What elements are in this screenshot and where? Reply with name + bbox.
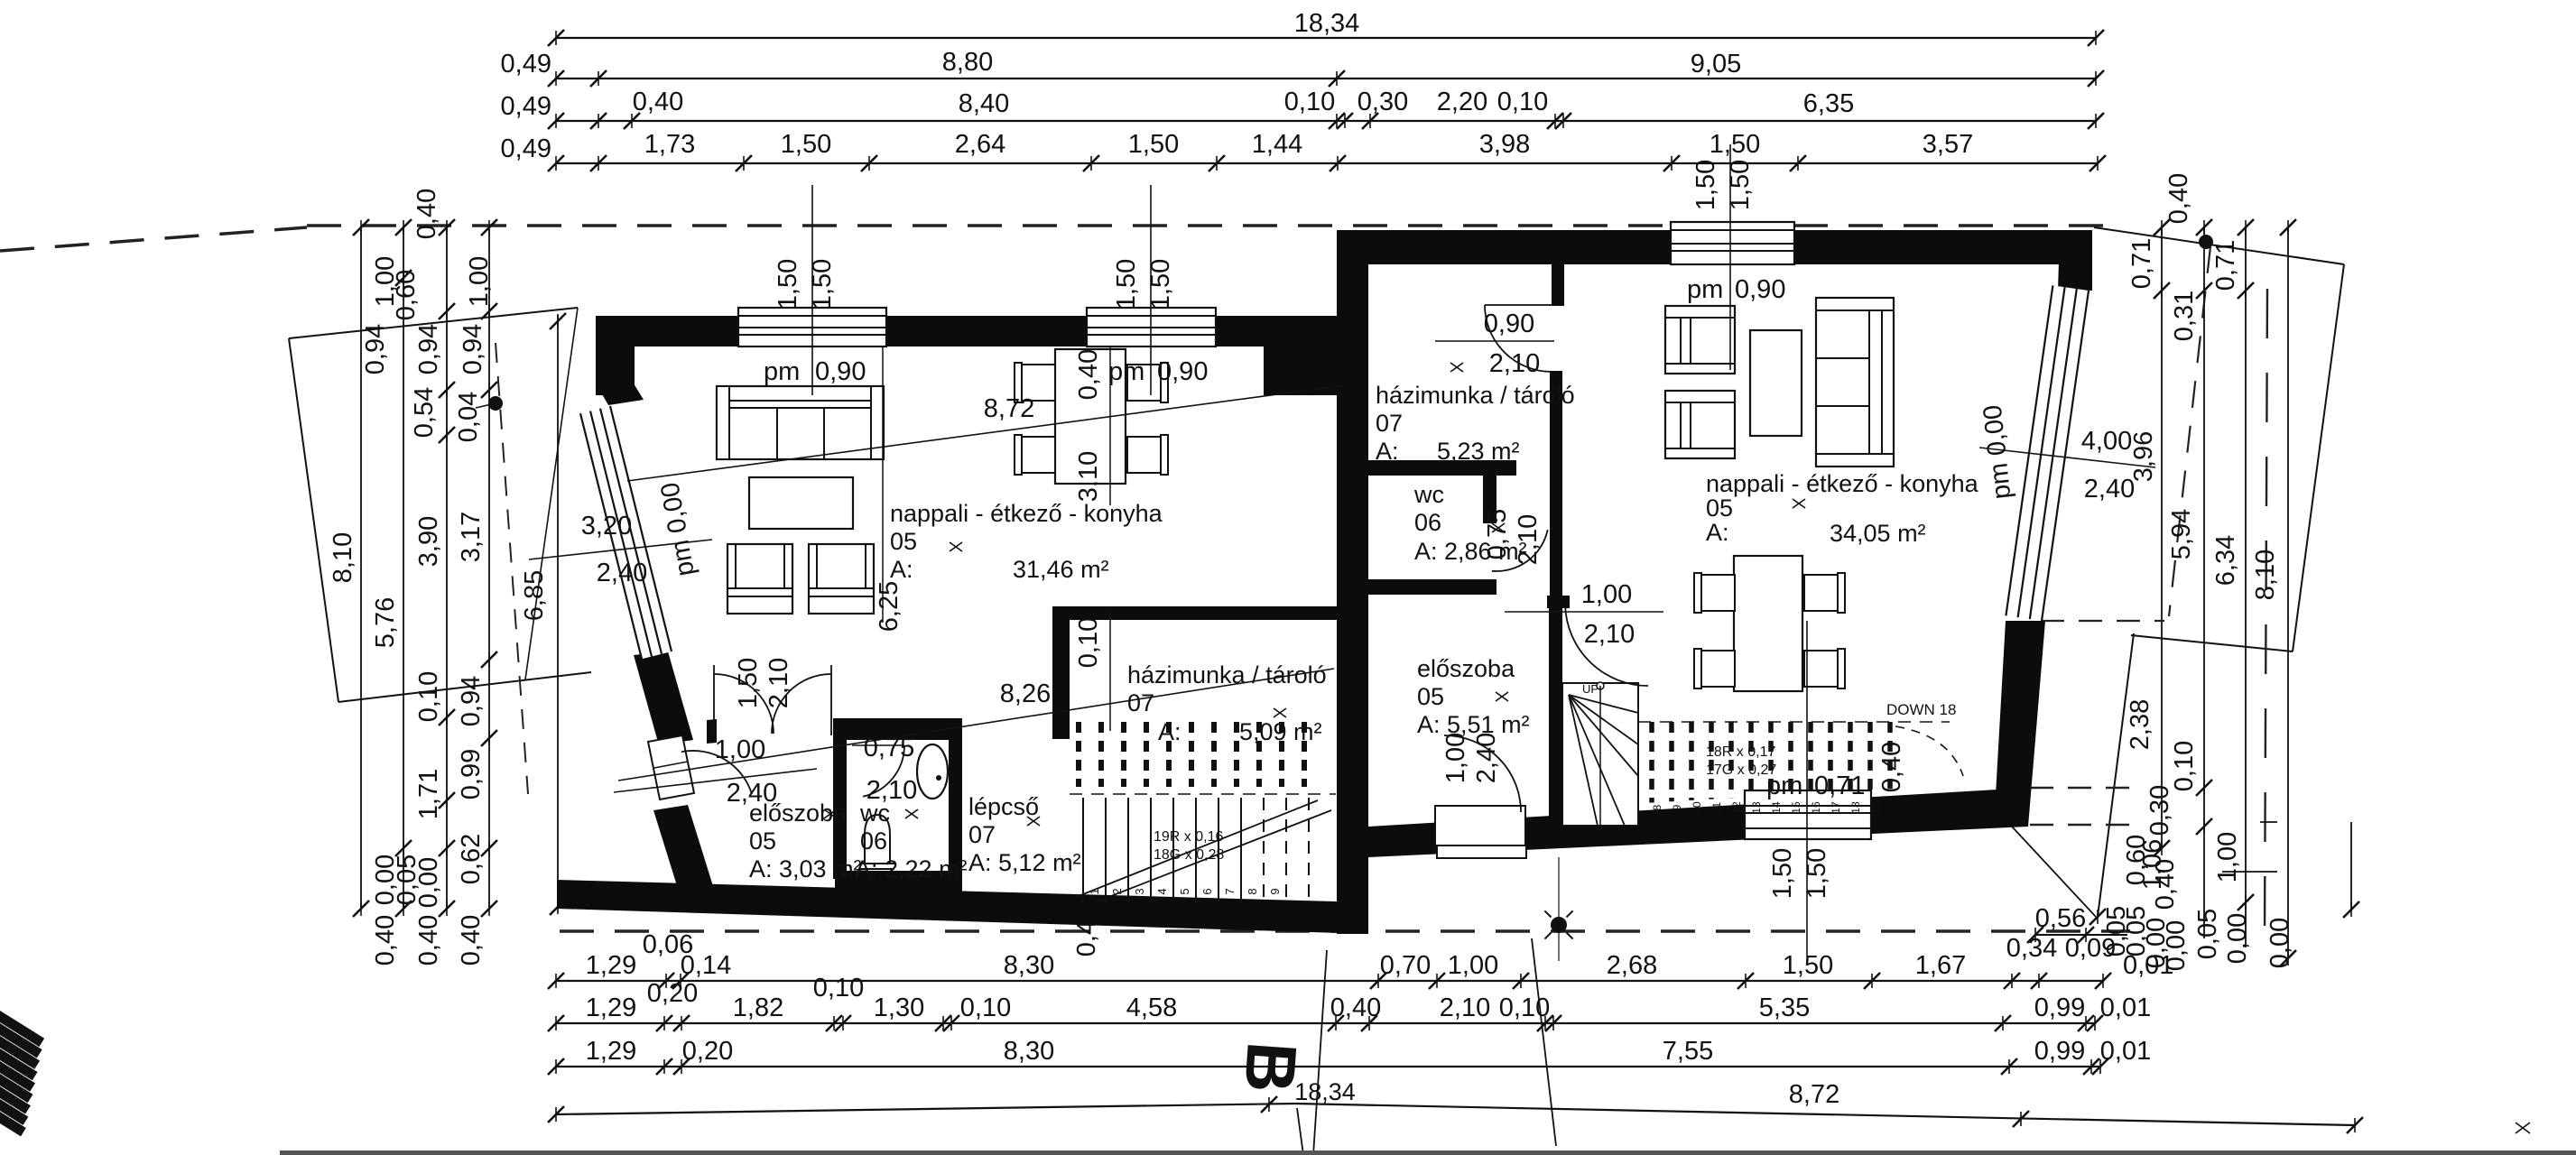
svg-text:0,99: 0,99 (2034, 1037, 2085, 1066)
svg-text:1,50: 1,50 (1710, 130, 1760, 159)
svg-text:19: 19 (1869, 801, 1882, 814)
svg-text:5,76: 5,76 (371, 597, 400, 648)
svg-text:6,34: 6,34 (2211, 535, 2240, 586)
svg-text:0,49: 0,49 (501, 50, 551, 79)
svg-text:2: 2 (1110, 888, 1124, 894)
svg-text:0,99: 0,99 (2034, 993, 2085, 1022)
svg-text:0,71: 0,71 (1814, 772, 1865, 800)
svg-text:8,40: 8,40 (959, 89, 1009, 118)
svg-text:2,38: 2,38 (2126, 699, 2154, 750)
svg-text:0,20: 0,20 (682, 1037, 733, 1066)
svg-text:9: 9 (1671, 804, 1683, 810)
svg-text:1,67: 1,67 (1915, 951, 1966, 980)
svg-text:5,09 m²: 5,09 m² (1239, 718, 1322, 745)
svg-text:1,50: 1,50 (808, 259, 837, 310)
svg-text:1,29: 1,29 (586, 951, 636, 980)
svg-text:1,50: 1,50 (781, 130, 831, 159)
svg-text:0,00: 0,00 (2266, 918, 2294, 968)
svg-text:07: 07 (1376, 410, 1403, 437)
svg-text:nappali - étkező - konyha: nappali - étkező - konyha (890, 500, 1163, 527)
svg-text:6,85: 6,85 (520, 570, 549, 621)
svg-text:pm: pm (1108, 357, 1144, 386)
svg-text:0,10: 0,10 (2170, 741, 2199, 791)
svg-text:0,40: 0,40 (633, 88, 683, 116)
svg-text:5,23 m²: 5,23 m² (1437, 438, 1520, 465)
svg-text:8,26: 8,26 (1000, 679, 1051, 708)
svg-text:0,40: 0,40 (1330, 993, 1381, 1022)
svg-text:1,50: 1,50 (1768, 848, 1797, 899)
svg-text:8,30: 8,30 (1004, 1037, 1054, 1066)
svg-text:2,10: 2,10 (1514, 514, 1543, 565)
svg-text:7: 7 (1223, 888, 1237, 894)
svg-text:UP: UP (1582, 682, 1598, 696)
svg-text:1,50: 1,50 (1802, 848, 1831, 899)
svg-text:9: 9 (1268, 888, 1282, 894)
svg-text:6: 6 (1200, 888, 1214, 894)
svg-text:1,29: 1,29 (586, 993, 636, 1022)
svg-text:07: 07 (1127, 689, 1154, 716)
svg-text:3,90: 3,90 (414, 516, 443, 567)
svg-text:1: 1 (1088, 888, 1101, 894)
svg-text:1,00: 1,00 (2213, 832, 2242, 882)
svg-text:0,10: 0,10 (1074, 617, 1103, 668)
svg-text:4: 4 (1155, 888, 1169, 894)
svg-text:1,30: 1,30 (874, 993, 924, 1022)
svg-text:0,30: 0,30 (2145, 785, 2174, 836)
svg-text:0,31: 0,31 (2170, 291, 2199, 341)
svg-text:2,40: 2,40 (2084, 475, 2135, 504)
svg-text:05: 05 (890, 528, 917, 555)
svg-text:8,80: 8,80 (942, 48, 993, 77)
svg-text:0,99: 0,99 (457, 749, 486, 799)
svg-text:15: 15 (1790, 801, 1802, 814)
svg-text:4,00: 4,00 (2081, 427, 2132, 456)
svg-text:A: 2,22 m²: A: 2,22 m² (855, 855, 968, 882)
svg-text:0,49: 0,49 (501, 92, 551, 121)
svg-text:0,60: 0,60 (392, 270, 421, 320)
svg-text:0,01: 0,01 (2100, 993, 2151, 1022)
svg-text:1,50: 1,50 (1146, 259, 1175, 310)
svg-text:8,30: 8,30 (1004, 951, 1054, 980)
svg-text:1,00: 1,00 (1581, 580, 1632, 609)
svg-text:12: 12 (1730, 801, 1743, 814)
svg-text:lépcső: lépcső (968, 793, 1039, 820)
svg-text:2,20: 2,20 (1437, 88, 1487, 116)
svg-text:1,44: 1,44 (1252, 130, 1302, 159)
svg-text:0,10: 0,10 (1284, 88, 1335, 116)
svg-text:2,10: 2,10 (866, 776, 917, 805)
svg-text:18: 18 (1849, 801, 1862, 814)
svg-text:05: 05 (749, 827, 776, 855)
svg-text:5,94: 5,94 (2167, 509, 2196, 559)
svg-text:11: 11 (1710, 801, 1723, 813)
svg-text:0,10: 0,10 (414, 671, 443, 722)
svg-text:0,40: 0,40 (371, 915, 400, 966)
svg-text:17: 17 (1830, 801, 1842, 814)
svg-text:2,10: 2,10 (764, 658, 793, 708)
svg-text:31,46 m²: 31,46 m² (1013, 556, 1109, 583)
svg-text:0,01: 0,01 (2123, 951, 2173, 980)
svg-text:0,94: 0,94 (414, 324, 443, 374)
svg-text:0,30: 0,30 (1357, 88, 1408, 116)
svg-text:házimunka / tároló: házimunka / tároló (1376, 382, 1575, 409)
svg-text:8: 8 (1651, 804, 1663, 810)
svg-text:A:: A: (1376, 438, 1399, 465)
svg-text:13: 13 (1750, 801, 1763, 814)
svg-text:0,01: 0,01 (2100, 1037, 2151, 1066)
svg-text:A: 3,03 m²: A: 3,03 m² (749, 855, 862, 882)
svg-text:5: 5 (1178, 888, 1191, 894)
svg-text:pm: pm (764, 357, 800, 386)
svg-text:A:: A: (890, 556, 913, 583)
svg-text:2,10: 2,10 (1440, 993, 1490, 1022)
svg-text:3,20: 3,20 (581, 512, 632, 541)
svg-text:0,90: 0,90 (815, 357, 866, 386)
svg-text:2,10: 2,10 (1489, 349, 1540, 378)
svg-text:0,70: 0,70 (1380, 951, 1431, 980)
svg-text:0,10: 0,10 (960, 993, 1011, 1022)
svg-text:3,98: 3,98 (1479, 130, 1530, 159)
svg-text:6,35: 6,35 (1803, 89, 1854, 118)
svg-text:2,40: 2,40 (597, 559, 647, 587)
svg-text:házimunka / tároló: házimunka / tároló (1127, 661, 1327, 688)
svg-text:0,71: 0,71 (2211, 240, 2240, 291)
svg-text:1,50: 1,50 (1783, 951, 1833, 980)
svg-text:2,68: 2,68 (1607, 951, 1657, 980)
svg-text:1,00: 1,00 (465, 256, 494, 307)
svg-text:1,00: 1,00 (715, 735, 765, 764)
svg-text:A: 5,12 m²: A: 5,12 m² (968, 849, 1081, 876)
svg-text:9,05: 9,05 (1691, 50, 1741, 79)
svg-text:8,10: 8,10 (329, 532, 357, 583)
svg-text:3,10: 3,10 (1074, 451, 1103, 502)
svg-text:1,00: 1,00 (1441, 733, 1470, 783)
svg-text:1,50: 1,50 (1112, 259, 1141, 310)
svg-text:3: 3 (1133, 888, 1146, 894)
svg-text:0,00: 0,00 (414, 857, 443, 908)
svg-text:0,49: 0,49 (501, 134, 551, 163)
svg-text:0,10: 0,10 (1497, 88, 1548, 116)
svg-text:18R x 0,17: 18R x 0,17 (1706, 744, 1775, 760)
svg-text:16: 16 (1810, 801, 1822, 814)
svg-text:1,50: 1,50 (1128, 130, 1179, 159)
svg-text:4,58: 4,58 (1126, 993, 1177, 1022)
svg-text:pm: pm (1687, 275, 1723, 304)
svg-text:05: 05 (1706, 494, 1733, 522)
svg-text:0,40: 0,40 (457, 915, 486, 966)
svg-text:pm: pm (1766, 772, 1802, 800)
svg-text:0,00: 0,00 (2223, 913, 2252, 964)
svg-text:0,90: 0,90 (1484, 310, 1534, 338)
svg-text:3,17: 3,17 (457, 512, 486, 562)
svg-text:06: 06 (860, 827, 887, 855)
svg-text:5,35: 5,35 (1759, 993, 1810, 1022)
svg-text:0,20: 0,20 (647, 979, 698, 1008)
svg-text:0,54: 0,54 (410, 387, 439, 438)
svg-text:14: 14 (1770, 801, 1783, 814)
svg-text:A:: A: (1158, 718, 1181, 745)
svg-text:0,71: 0,71 (2127, 238, 2156, 289)
svg-text:8,10: 8,10 (2251, 550, 2280, 600)
svg-text:19R x 0,16: 19R x 0,16 (1154, 829, 1223, 845)
svg-text:0,94: 0,94 (361, 324, 390, 374)
svg-text:A:: A: (1706, 519, 1729, 546)
svg-text:0,90: 0,90 (1735, 275, 1785, 304)
svg-text:7,55: 7,55 (1663, 1037, 1713, 1066)
svg-text:0,62: 0,62 (457, 834, 486, 884)
svg-text:1,50: 1,50 (774, 259, 802, 310)
svg-text:1,50: 1,50 (1726, 160, 1755, 210)
svg-text:0,09: 0,09 (2065, 934, 2116, 963)
svg-text:10: 10 (1691, 801, 1703, 814)
svg-text:2,64: 2,64 (955, 130, 1005, 159)
svg-text:előszoba: előszoba (1417, 655, 1515, 682)
svg-text:18,34: 18,34 (1294, 9, 1360, 38)
svg-text:2,40: 2,40 (727, 779, 777, 808)
svg-text:0,90: 0,90 (1157, 357, 1208, 386)
svg-text:0,10: 0,10 (1499, 993, 1550, 1022)
svg-text:0,94: 0,94 (459, 324, 487, 374)
svg-text:0,40: 0,40 (1074, 349, 1103, 400)
svg-text:0,05: 0,05 (2193, 909, 2222, 959)
svg-text:2,40: 2,40 (1472, 733, 1501, 783)
svg-text:8,72: 8,72 (1789, 1080, 1839, 1109)
svg-text:3,57: 3,57 (1923, 130, 1973, 159)
svg-text:0,40: 0,40 (2151, 859, 2180, 910)
svg-text:34,05 m²: 34,05 m² (1830, 520, 1926, 547)
svg-text:1,00: 1,00 (1448, 951, 1498, 980)
svg-text:0,04: 0,04 (454, 392, 483, 442)
svg-text:2,10: 2,10 (1584, 620, 1635, 649)
svg-text:0,40: 0,40 (1877, 742, 1906, 792)
svg-text:8: 8 (1246, 888, 1259, 894)
svg-text:06: 06 (1414, 509, 1441, 536)
svg-text:0,40: 0,40 (414, 915, 443, 966)
svg-text:05: 05 (1417, 683, 1444, 710)
svg-text:1,71: 1,71 (414, 769, 443, 819)
svg-text:1,82: 1,82 (733, 993, 783, 1022)
svg-text:0,94: 0,94 (457, 676, 486, 726)
svg-text:0,40: 0,40 (412, 189, 441, 239)
svg-text:1,73: 1,73 (644, 130, 695, 159)
svg-text:1,50: 1,50 (1691, 160, 1720, 210)
svg-text:0,75: 0,75 (864, 734, 914, 762)
svg-text:wc: wc (1413, 481, 1444, 508)
svg-text:0,75: 0,75 (1483, 509, 1512, 559)
svg-text:6,25: 6,25 (875, 581, 903, 632)
svg-text:DOWN 18: DOWN 18 (1886, 701, 1956, 718)
svg-text:nappali - étkező - konyha: nappali - étkező - konyha (1706, 470, 1979, 497)
svg-text:B: B (1229, 1039, 1312, 1095)
svg-text:8,72: 8,72 (984, 394, 1034, 423)
svg-text:07: 07 (968, 821, 996, 848)
svg-text:0,10: 0,10 (813, 974, 864, 1003)
svg-text:0,40: 0,40 (2164, 173, 2193, 224)
svg-text:1,29: 1,29 (586, 1037, 636, 1066)
svg-text:1,50: 1,50 (734, 658, 763, 708)
svg-text:0,14: 0,14 (681, 951, 731, 980)
svg-text:18G x 0,28: 18G x 0,28 (1154, 847, 1224, 863)
